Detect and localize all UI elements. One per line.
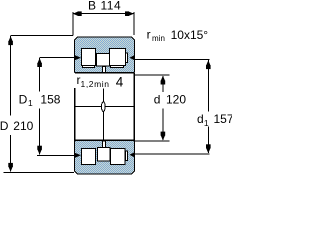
arrow B right [128,11,134,16]
wire D1 dimension vertical upper [39,58,41,92]
svg-text:D: D [0,119,9,133]
svg-text:1: 1 [28,98,33,108]
rib chamfer gap bottom-right [126,151,128,160]
svg-text:d: d [197,112,204,126]
bearing outer+inner ring top section body [75,37,135,73]
roller top-left [82,49,96,66]
wire d1 dimension vertical upper [207,60,209,111]
arrow D bottom [8,166,13,172]
wire bore side face right [133,73,135,141]
wire bore side face left [74,88,76,140]
node radial centreline horizontal [74,106,133,108]
svg-text:r: r [147,28,151,42]
svg-text:1,2min: 1,2min [81,79,110,89]
rib pointer top-right [130,55,135,60]
node axial centreline vertical [102,89,104,140]
inner ring split slot bottom section [103,141,106,148]
svg-text:D: D [19,92,28,106]
outer ring centre rib top section [97,54,110,67]
wire D dimension vertical lower [10,135,12,172]
node centre ellipse symbol [101,102,105,112]
arrow D1 bottom [37,149,42,155]
wire D1 top extension line [40,57,75,59]
wire d1 dimension vertical lower [207,127,209,154]
wire d dimension vertical lower [162,109,164,141]
svg-text:d: d [154,92,161,106]
svg-text:1: 1 [204,118,209,128]
svg-text:10x15°: 10x15° [171,28,209,42]
arrow d1 bottom [206,148,211,154]
wire D1 dimension vertical lower [39,109,41,155]
svg-text:158: 158 [40,92,60,106]
groove under roller top-left [83,66,95,68]
arrow d1 top [206,60,211,65]
svg-text:4: 4 [116,75,124,90]
arrow d top [161,76,166,82]
wire D top extension line [11,35,73,37]
bearing outer+inner ring bottom section body [75,140,135,174]
svg-text:min: min [152,34,165,43]
wire B dimension line [73,13,134,15]
svg-text:B 114: B 114 [88,0,121,13]
wire d top extension line [135,74,170,76]
roller bottom-left [82,149,96,165]
wire D dimension vertical upper [10,36,12,116]
wire d1 bottom extension line [135,153,210,155]
outer ring centre rib bottom section [98,148,111,162]
wire B extension line left [72,12,74,36]
wire d dimension vertical upper [162,76,164,92]
wire d1 top extension line [135,59,210,61]
wire d bottom extension line [135,140,170,142]
svg-text:210: 210 [13,119,33,133]
arrow D1 top [37,58,42,64]
wire B extension line right [133,12,135,35]
arrow B left [73,11,79,16]
rib pointer bottom-left [75,153,81,158]
groove under roller top-right [111,66,124,68]
rib pointer bottom-right [130,152,135,157]
arrow d bottom [161,135,166,141]
roller bottom-right [111,149,126,165]
rib chamfer gap top-right [126,53,128,62]
inner ring split slot top section [103,67,106,73]
svg-text:157: 157 [214,112,233,126]
roller top-right [110,49,126,66]
arrow D top [8,36,13,42]
svg-text:120: 120 [166,92,186,106]
rib pointer top-left [75,55,81,60]
wire D1 bottom extension line [37,154,74,156]
wire D bottom extension line [3,172,74,174]
